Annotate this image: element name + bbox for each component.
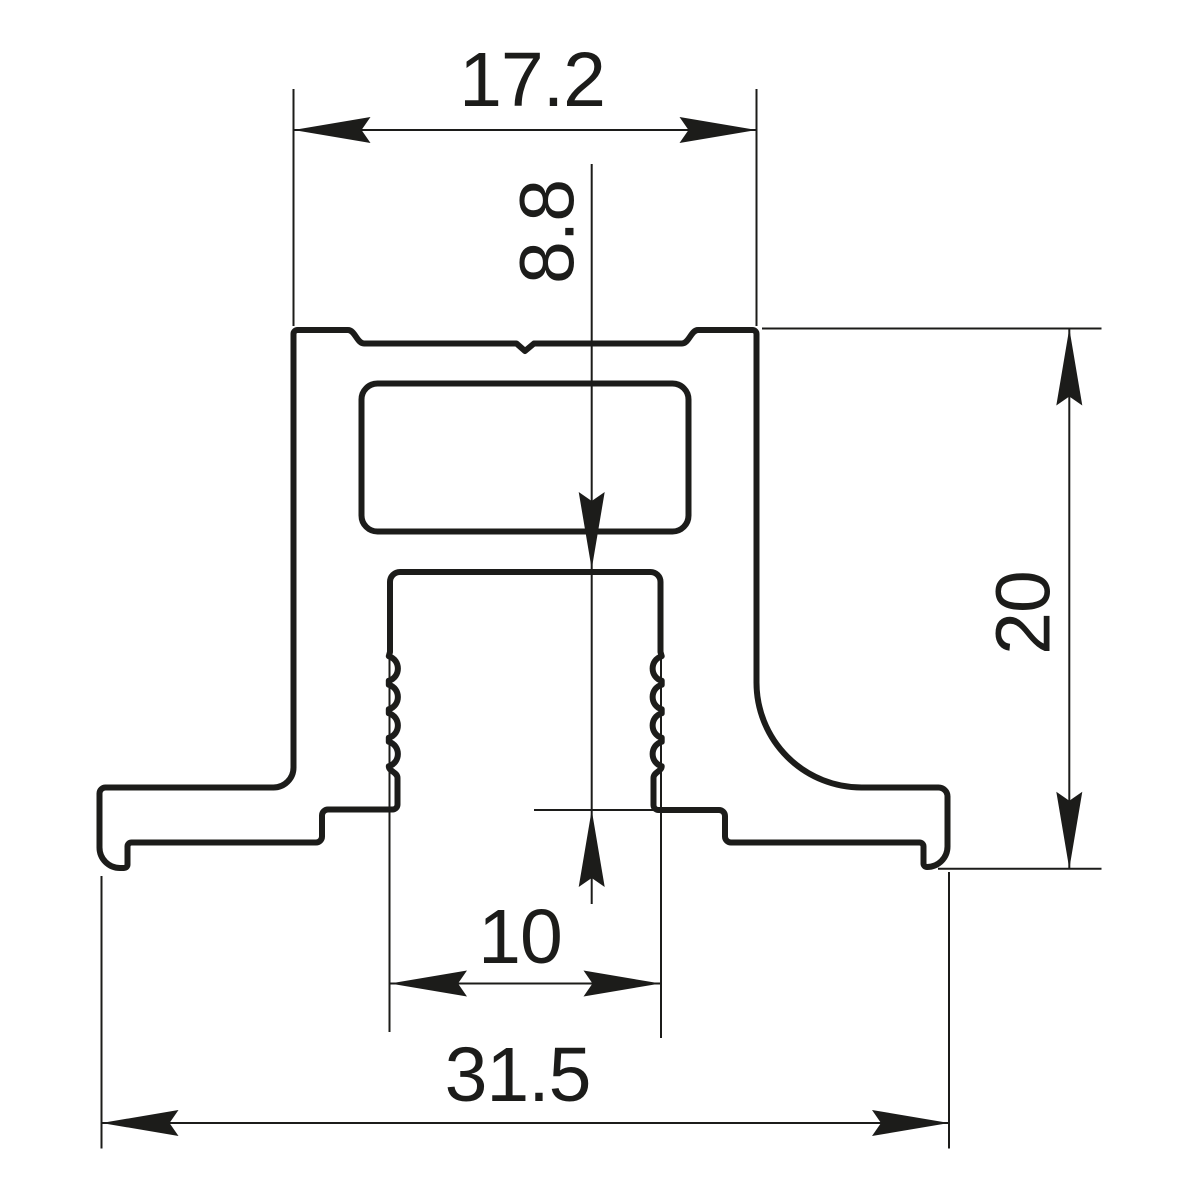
svg-text:17.2: 17.2 [459,37,605,123]
dimension 20 extension line bottom [938,868,1102,870]
dimension 17.2 extension line left [293,89,295,326]
hollow chamber [362,384,689,532]
dimension 10 line [390,971,661,997]
dimension 8.8 arrow lower [579,810,605,887]
dimension 17.2 label [459,37,605,123]
svg-text:8.8: 8.8 [505,180,591,284]
dimension 20 line [1056,329,1082,869]
dimension 10 extension line left [389,655,391,1032]
dimension 20 label [981,571,1067,655]
svg-text:31.5: 31.5 [445,1032,591,1118]
dimension 31.5 extension line right [948,872,950,1149]
dimension 8.8 label [505,180,591,284]
extrusion profile outline [100,330,948,868]
dimension 10 label [478,894,562,980]
dimension 8.8 extension line [534,809,658,811]
svg-text:20: 20 [981,571,1067,655]
dimension 20 extension line top [762,328,1102,330]
dimension 10 extension line right [660,655,662,1038]
svg-text:10: 10 [478,894,562,980]
dimension 17.2 line [294,117,757,143]
dimension 17.2 extension line right [756,89,758,326]
dimension 31.5 line [102,1110,950,1136]
dimension 31.5 label [445,1032,591,1118]
dimension 8.8 line [579,164,605,904]
dimension 31.5 extension line left [101,876,103,1149]
